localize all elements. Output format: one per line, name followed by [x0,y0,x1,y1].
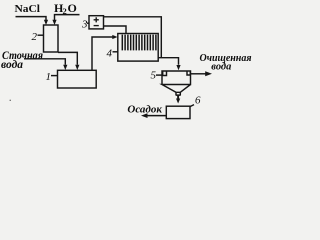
speck noise dot [10,100,11,101]
wire rectifier positive lead to electrolyzer right plate [104,17,162,58]
flotation tank 5 right weir notch [187,71,190,75]
svg-text:4: 4 [107,48,113,60]
wire electrolyzer 4 outlet down to flotation tank 5 [158,58,179,65]
arrowhead into flotation tank 5 top [176,65,180,70]
arrowhead H2O into box 2 [52,20,56,25]
electrode plates in electrolyzer 4 [122,35,156,51]
arrowhead NaCl into box 2 [44,20,48,25]
svg-text:NaCl: NaCl [15,3,41,15]
leader tick for label 2 [38,34,44,36]
svg-text:вода: вода [1,57,23,71]
wire riser from mixer 1 to electrolyzer 4 [92,37,113,70]
leader tick for label 3 [87,22,89,24]
svg-text:6: 6 [195,95,201,107]
mixer box 1 [58,70,97,88]
wire rectifier negative lead to electrolyzer left plate [104,26,127,34]
sludge box 6 [166,106,190,118]
flotation tank 5 body [162,71,191,92]
wire NaCl feed line into saturator 2 [16,17,47,21]
plus symbol in rectifier 3 [94,17,99,22]
rectifier box 3 [89,16,104,29]
minus symbol in rectifier 3 [94,25,99,27]
svg-text:вода: вода [211,60,231,72]
arrowhead sludge outlet [141,113,148,118]
flotation tank 5 left weir notch [163,71,167,76]
wire sludge drop from tank 5 to box 6 [177,95,179,99]
wire saturator 2 outlet to mixer 1 [58,52,77,64]
svg-text:2: 2 [32,31,38,43]
electrolyzer box 4 [118,34,158,62]
svg-text:O: O [68,1,77,15]
arrowhead sludge into box 6 [176,99,180,104]
flotation tank 5 bottom neck [176,92,181,95]
wire wastewater feed line into mixer 1 [24,59,65,65]
saturator box 2 [44,25,59,52]
svg-text:5: 5 [151,70,157,82]
leader tick for label 4 [113,51,119,53]
wire H2O feed line into saturator 2 [55,15,80,21]
svg-text:1: 1 [46,71,52,83]
arrowhead wastewater into box 1 [63,65,67,70]
leader tick for label 6 [190,105,194,107]
svg-text:Осадок: Осадок [127,103,162,115]
wire clean water outlet arrow [191,73,206,75]
leader tick for label 5 [156,74,162,76]
arrowhead clean water [205,71,212,76]
arrowhead saturator line into box 1 [75,65,79,70]
svg-text:3: 3 [81,19,88,31]
wire sludge outlet arrow from box 6 [148,115,167,117]
leader tick for label 1 [51,75,58,77]
arrowhead into electrolyzer 4 left side [112,35,117,39]
